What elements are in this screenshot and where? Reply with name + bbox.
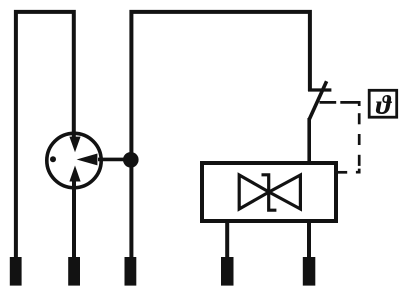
wire from terminal 1 up, across top, down into spark gap top [16,12,74,257]
wire from spark gap bottom to terminal 2 [72,178,76,257]
wire from box to terminal 5 [307,221,311,257]
junction dot [123,152,139,168]
spark gap (triggered gas discharge tube) [47,133,101,187]
wire from terminal 3 up, across top, down to disconnector [131,12,310,257]
wire from disconnector to varistor box [307,118,311,163]
terminal pin 2 [68,257,80,286]
terminal pin 4 [221,257,234,286]
wire from junction to spark gap arrow [98,158,131,162]
terminal pin 1 [10,257,22,286]
thermal disconnector switch [308,81,331,119]
varistor / suppressor element symbol [239,175,300,210]
temperature sensor box [369,90,397,117]
varistor box [202,163,336,221]
wire from box to terminal 4 [225,221,229,257]
terminal pin 5 [303,257,316,286]
terminal pin 3 [125,257,137,286]
svg-text:ϑ: ϑ [376,90,393,119]
dashed thermal linkage wire [320,102,360,172]
